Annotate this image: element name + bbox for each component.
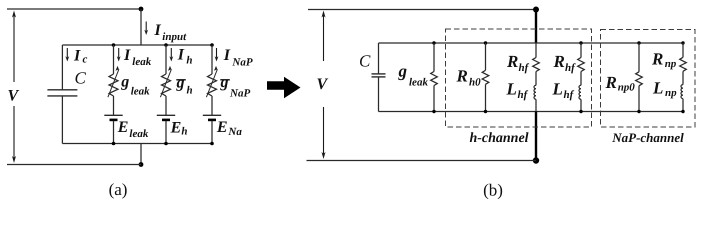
svg-text:leak: leak: [132, 56, 151, 68]
svg-text:h: h: [181, 126, 187, 138]
svg-text:V: V: [8, 88, 20, 105]
node: leak branch top (a): [112, 43, 116, 47]
node: bottom junction (b): [533, 157, 539, 163]
svg-text:NaP: NaP: [229, 87, 250, 99]
wire: inner bottom rail (b): [379, 111, 684, 113]
svg-text:R: R: [605, 73, 617, 92]
node: g_leak bottom (b): [432, 110, 435, 113]
svg-text:g: g: [220, 74, 229, 91]
box: NaP-channel dashed group: [601, 30, 696, 128]
svg-text:leak: leak: [129, 128, 148, 140]
resistor R_np0: [636, 72, 643, 86]
wire: R_hf/L_hf branch 2 middle lead: [580, 72, 582, 86]
wire: inner top rail (a): [62, 44, 213, 46]
node: branch 2 bottom (b): [579, 110, 582, 113]
svg-text:h0: h0: [469, 77, 481, 89]
wire: h branch upper lead: [165, 45, 167, 74]
svg-text:R: R: [651, 50, 663, 69]
svg-text:E: E: [216, 119, 228, 136]
wire: R_hf/L_hf branch 1 lower lead: [535, 99, 537, 111]
svg-text:np0: np0: [618, 81, 636, 93]
wire: R_np0 upper lead: [638, 43, 640, 72]
wire: outer top rail (a): [7, 8, 141, 10]
resistor R_h0: [482, 70, 489, 84]
wire: leak branch middle lead: [113, 96, 115, 115]
wire: R_hf/L_hf branch 1 upper lead: [535, 43, 537, 58]
resistor g_leak (b): [431, 72, 438, 86]
svg-text:np: np: [665, 87, 677, 99]
svg-text:C: C: [359, 52, 371, 71]
wire: inner bottom rail (a): [62, 143, 213, 145]
wire: C branch upper lead (b): [378, 43, 380, 74]
wire: NaP branch upper lead: [211, 45, 213, 74]
svg-text:I: I: [177, 46, 185, 63]
node: NaP branch top (a): [210, 43, 214, 47]
svg-text:R: R: [506, 52, 518, 71]
wire: R_h0 upper lead: [485, 43, 487, 70]
voltage arrow V (a): [12, 11, 16, 164]
battery E_h: [157, 115, 175, 120]
svg-text:np: np: [665, 58, 677, 70]
svg-text:L: L: [552, 80, 563, 99]
resistor g_NaP (variable): [206, 66, 217, 97]
svg-text:R: R: [456, 67, 468, 86]
svg-text:hf: hf: [565, 62, 576, 74]
wire: g_leak upper lead (b): [433, 43, 435, 72]
wire: R_np/L_np upper lead: [682, 43, 684, 57]
svg-text:hf: hf: [518, 89, 529, 101]
svg-text:leak: leak: [409, 77, 428, 89]
wire: thick input drop bottom (b): [535, 112, 537, 161]
svg-text:C: C: [75, 69, 87, 88]
svg-text:V: V: [317, 76, 329, 93]
node: h branch top (a): [164, 43, 168, 47]
node: leak branch bottom (a): [112, 142, 116, 146]
svg-text:hf: hf: [564, 89, 575, 101]
wire: leak branch lower lead: [113, 121, 115, 144]
resistor R_hf 1: [533, 58, 540, 72]
wire: NaP branch lower lead: [211, 121, 213, 144]
wire: inner top rail (b): [379, 42, 684, 44]
node: input top junction (a): [139, 7, 144, 12]
inductor L_hf 1: [534, 85, 536, 99]
svg-text:E: E: [170, 119, 182, 136]
node: R_np/L_np branch top (b): [681, 41, 684, 44]
node: R_np0 bottom (b): [637, 110, 640, 113]
resistor g_h (variable): [160, 66, 171, 97]
capacitor C (b): [372, 74, 386, 77]
svg-text:I: I: [223, 47, 231, 64]
wire: C branch lower lead (b): [378, 77, 380, 111]
svg-text:h: h: [186, 54, 192, 66]
svg-text:Na: Na: [227, 126, 242, 138]
node: branch 2 top (b): [579, 41, 582, 44]
wire: left edge below capacitor (a): [61, 96, 63, 143]
node: R_h0 bottom (b): [484, 110, 487, 113]
svg-text:(b): (b): [483, 181, 503, 200]
svg-text:NaP: NaP: [231, 57, 252, 69]
arrow: transform (a) to (b): [267, 77, 301, 98]
svg-text:g: g: [120, 73, 129, 90]
svg-text:E: E: [117, 119, 129, 136]
wire: leak branch upper lead: [113, 45, 115, 74]
svg-text:I: I: [123, 47, 131, 64]
svg-text:R: R: [553, 52, 565, 71]
current arrow I_NaP: [215, 48, 219, 62]
label g_h (with overbar): [176, 79, 186, 81]
node: input top junction (b): [533, 7, 539, 13]
wire: R_np0 lower lead: [638, 86, 640, 112]
svg-text:hf: hf: [519, 62, 530, 74]
node: g_leak top (b): [432, 41, 435, 44]
battery E_leak: [104, 115, 122, 120]
wire: h branch lower lead: [165, 121, 167, 144]
wire: R_np/L_np middle lead: [682, 71, 684, 84]
node: R_h0 top (b): [484, 41, 487, 44]
svg-text:input: input: [162, 31, 187, 43]
wire: left edge above capacitor (a): [61, 45, 63, 89]
svg-text:c: c: [83, 54, 88, 66]
svg-text:NaP-channel: NaP-channel: [611, 130, 684, 145]
label g_NaP (with overbar): [220, 79, 230, 81]
current arrow I_leak: [117, 48, 121, 62]
svg-text:L: L: [506, 80, 517, 99]
svg-text:g: g: [398, 62, 408, 81]
wire: outer bottom rail (b): [307, 160, 537, 162]
svg-text:h: h: [187, 85, 193, 97]
node: NaP branch bottom (a): [210, 142, 214, 146]
wire: thick input drop top (b): [535, 10, 537, 44]
wire: NaP branch middle lead: [211, 96, 213, 115]
wire: bottom drop from inner box to bottom rail (a): [140, 144, 142, 165]
current arrow I_input: [144, 22, 148, 36]
wire: h branch middle lead: [165, 96, 167, 115]
node: R_np0 top (b): [637, 41, 640, 44]
node: h branch bottom (a): [164, 142, 168, 146]
inductor L_np: [681, 85, 683, 99]
wire: R_h0 lower lead: [485, 84, 487, 111]
node: R_np/L_np branch bottom (b): [681, 110, 684, 113]
svg-text:leak: leak: [131, 85, 150, 97]
resistor R_np: [680, 57, 687, 71]
svg-text:h-channel: h-channel: [469, 131, 528, 146]
voltage arrow V (b): [322, 11, 326, 160]
capacitor C (a): [47, 90, 77, 96]
wire: input drop from top rail to inner box (a): [140, 9, 142, 45]
current arrow I_c: [65, 48, 69, 62]
current arrow I_h: [169, 48, 173, 62]
wire: outer bottom rail (a): [7, 164, 141, 166]
wire: R_hf/L_hf branch 1 middle lead: [535, 72, 537, 86]
resistor g_leak (variable): [108, 66, 119, 97]
node: bottom junction (a): [139, 162, 144, 167]
inductor L_hf 2: [579, 85, 581, 99]
svg-text:(a): (a): [109, 180, 128, 199]
wire: g_leak lower lead (b): [433, 86, 435, 112]
wire: R_hf/L_hf branch 2 upper lead: [580, 43, 582, 58]
box: h-channel dashed group: [446, 29, 592, 127]
svg-text:L: L: [652, 79, 663, 98]
wire: outer top rail (b): [308, 9, 536, 11]
wire: R_hf/L_hf branch 2 lower lead: [580, 99, 582, 111]
wire: R_np/L_np lower lead: [682, 99, 684, 112]
svg-text:I: I: [154, 22, 162, 39]
svg-text:I: I: [73, 47, 81, 64]
svg-text:g: g: [176, 75, 185, 92]
battery E_Na: [203, 115, 221, 120]
resistor R_hf 2: [578, 58, 585, 72]
